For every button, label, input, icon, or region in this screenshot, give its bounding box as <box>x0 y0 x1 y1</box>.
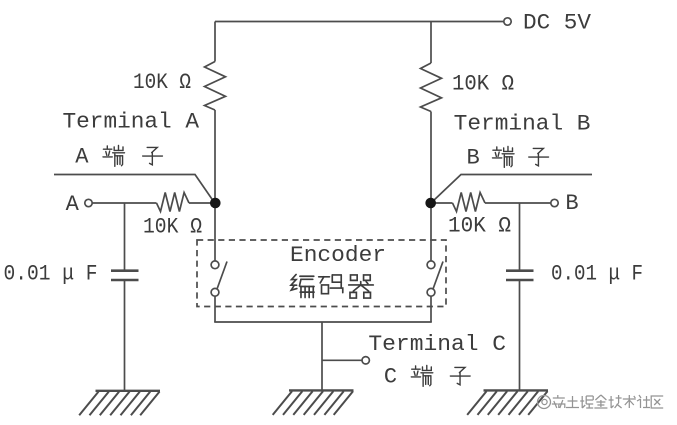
label zi of B row <box>529 148 549 165</box>
resistor R2 10K vertical right zigzag <box>421 63 442 112</box>
svg-text:10K Ω: 10K Ω <box>133 70 191 95</box>
svg-text:0.01 μ F: 0.01 μ F <box>4 262 98 287</box>
wire capacitor branch left upper <box>124 203 126 270</box>
capacitor C1 plates <box>111 271 139 280</box>
watermark shu <box>623 395 636 408</box>
resistor R1 10K vertical left zigzag <box>205 62 226 111</box>
wire switch A upper <box>214 203 216 261</box>
wire right pullup lower <box>430 112 432 204</box>
switch SW-A arm <box>217 262 227 289</box>
wire switch B upper <box>430 203 432 261</box>
svg-text:B: B <box>467 146 480 171</box>
svg-text:Encoder: Encoder <box>290 243 386 268</box>
ground center <box>273 390 354 415</box>
wire capacitor branch left lower <box>124 281 126 390</box>
encoder dashed box <box>197 240 446 307</box>
label duan of C row <box>411 366 433 387</box>
wire right pullup upper <box>430 22 432 64</box>
wire switch A lower <box>214 296 216 322</box>
svg-text:Terminal B: Terminal B <box>454 112 591 137</box>
wire junction B to R4 <box>431 202 453 204</box>
watermark ji <box>609 395 622 408</box>
node junction A dot <box>210 198 221 209</box>
switch SW-A contacts <box>211 261 443 296</box>
wire switch B lower <box>430 296 432 322</box>
terminal A circle <box>85 199 92 206</box>
label zi of A row <box>143 147 163 164</box>
label zi of C row <box>450 367 470 384</box>
svg-text:10K Ω: 10K Ω <box>448 214 511 239</box>
wire top rail <box>215 21 504 23</box>
svg-text:Terminal C: Terminal C <box>368 332 506 357</box>
watermark she <box>637 395 650 408</box>
watermark tu <box>566 396 579 408</box>
switch SW-B contacts <box>427 261 435 269</box>
svg-text:A: A <box>75 145 89 170</box>
wire terminal A label callout <box>54 175 214 203</box>
watermark jue <box>580 396 593 408</box>
wire terminal B label callout <box>432 175 592 203</box>
wire from terminal A <box>92 202 156 204</box>
wire R3 to junction A <box>189 202 215 204</box>
watermark jin <box>594 395 607 408</box>
node junction B dot <box>425 198 436 209</box>
wire R4 to terminal B <box>485 202 551 204</box>
wire capacitor branch right lower <box>519 281 521 390</box>
terminal DC5V circle <box>504 18 511 25</box>
label ma of encoder <box>319 275 343 294</box>
ground left <box>79 391 160 416</box>
watermark xi <box>552 395 565 408</box>
wire center ground drop <box>321 322 323 390</box>
wire terminal C branch <box>322 359 362 361</box>
terminal C circle <box>362 357 369 364</box>
resistor R3 10K series A zigzag <box>157 193 190 212</box>
watermark @ <box>538 396 551 409</box>
svg-text:B: B <box>565 191 578 216</box>
wire left pullup upper <box>214 22 216 62</box>
label qi of encoder <box>349 275 374 298</box>
resistor R4 10K series B zigzag <box>453 193 486 212</box>
label duan of A row <box>103 146 125 167</box>
svg-text:DC 5V: DC 5V <box>523 10 592 35</box>
svg-text:0.01 μ F: 0.01 μ F <box>551 262 643 287</box>
svg-text:A: A <box>66 192 80 217</box>
wire capacitor branch right upper <box>519 203 521 270</box>
svg-text:10K Ω: 10K Ω <box>143 214 202 239</box>
label duan of B row <box>493 147 515 168</box>
terminal B circle <box>551 199 558 206</box>
watermark qu <box>651 396 663 408</box>
switch SW-B arm <box>433 262 443 289</box>
wire left pullup lower <box>214 110 216 203</box>
wire encoder bottom rail <box>214 321 432 323</box>
svg-text:Terminal A: Terminal A <box>63 110 200 135</box>
label bian of encoder <box>291 274 314 297</box>
svg-text:10K Ω: 10K Ω <box>452 72 514 97</box>
watermark <box>538 396 551 409</box>
ground right <box>467 390 548 415</box>
capacitor C2 plates <box>506 271 534 280</box>
svg-text:C: C <box>384 365 397 390</box>
